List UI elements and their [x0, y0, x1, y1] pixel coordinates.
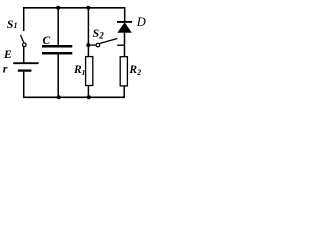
label C [43, 35, 51, 47]
junction node bottom-R1 [87, 95, 91, 99]
svg-text:E: E [3, 47, 12, 61]
junction node top-R1 [86, 6, 90, 10]
junction node S2-R1 [86, 43, 90, 47]
wire diode stem upper [124, 7, 126, 22]
junction node top-capacitor [56, 6, 60, 10]
wire bottom horizontal [23, 96, 125, 98]
resistor R2 [120, 57, 127, 86]
label S1 [7, 17, 18, 31]
wire diode to R2 [124, 32, 126, 57]
resistor R1 [86, 57, 93, 86]
svg-text:C: C [43, 35, 51, 47]
wire R1 stem upper [87, 8, 89, 57]
capacitor C [42, 46, 72, 53]
switch S1 [21, 35, 27, 47]
wire left column lower (battery to bottom) [23, 72, 25, 98]
wire left column middle (switch to battery) [23, 47, 25, 63]
wire left column upper (to switch S1) [23, 7, 25, 31]
label R1 [73, 64, 85, 77]
label D [136, 15, 146, 29]
wire capacitor stem lower [57, 54, 59, 97]
label E [3, 47, 12, 61]
switch S2 branch wire from node [88, 44, 96, 46]
label r [3, 62, 8, 76]
wire capacitor stem upper [57, 8, 59, 46]
switch S2 [96, 39, 125, 47]
label S2 [93, 26, 105, 40]
diode D [117, 22, 132, 33]
svg-text:D: D [136, 15, 146, 29]
battery E r [13, 63, 38, 70]
wire R2 stem lower [123, 86, 125, 97]
label R2 [128, 64, 141, 77]
wire R1 stem lower [87, 86, 89, 98]
wire top horizontal [23, 7, 125, 9]
junction node bottom-capacitor [57, 95, 61, 99]
svg-text:r: r [3, 62, 8, 76]
